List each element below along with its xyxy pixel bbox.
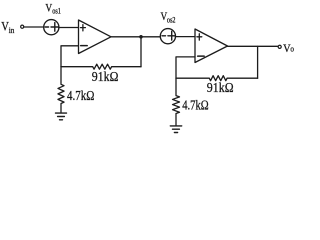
svg-text:4.7kΩ: 4.7kΩ <box>67 89 94 104</box>
svg-text:os1: os1 <box>52 7 61 16</box>
svg-text:91kΩ: 91kΩ <box>92 70 119 85</box>
svg-text:in: in <box>9 25 15 35</box>
svg-text:V: V <box>45 2 52 14</box>
svg-text:91kΩ: 91kΩ <box>207 81 234 96</box>
svg-text:os2: os2 <box>167 15 176 24</box>
svg-text:o: o <box>290 43 294 53</box>
svg-text:4.7kΩ: 4.7kΩ <box>182 99 209 114</box>
